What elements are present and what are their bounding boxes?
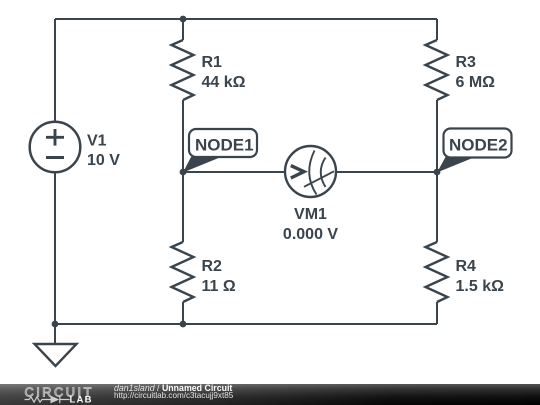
footer url line (114, 391, 233, 400)
junction bottom rail / ground (52, 321, 59, 328)
svg-text:V1: V1 (87, 132, 107, 149)
wire bottom rail (55, 323, 437, 325)
wire node A to voltmeter left terminal (183, 171, 285, 173)
svg-text:R3: R3 (456, 54, 477, 71)
wire left rail lower (54, 172, 56, 324)
svg-text:6 MΩ: 6 MΩ (456, 74, 496, 91)
node NODE2 flag tail (437, 157, 475, 173)
svg-text:R1: R1 (202, 54, 223, 71)
node NODE1 callout box (189, 129, 257, 157)
svg-text:NODE1: NODE1 (195, 136, 254, 155)
wire ground stub (54, 324, 56, 344)
svg-text:LAB: LAB (70, 395, 93, 405)
node NODE1 flag tail (183, 157, 221, 173)
wire R2 bottom lead (182, 302, 184, 324)
CircuitLab logo (0, 384, 110, 405)
label R4 name and value (456, 258, 505, 295)
resistor R2 (172, 242, 194, 302)
svg-text:0.000 V: 0.000 V (283, 226, 338, 243)
voltmeter VM1 (285, 146, 336, 197)
junction top rail / R1 (180, 16, 187, 23)
svg-text:R2: R2 (202, 258, 223, 275)
label R2 name and value (202, 258, 236, 295)
svg-text:11 Ω: 11 Ω (202, 278, 236, 295)
wire voltmeter right terminal to node B (336, 171, 437, 173)
resistor R4 (426, 242, 448, 302)
voltage source V1 (30, 122, 81, 173)
label VM1 name and reading (283, 206, 338, 243)
wire R3 bottom lead to node B (436, 100, 438, 172)
svg-text:R4: R4 (456, 258, 477, 275)
footer credit line (114, 383, 232, 393)
footer bar (0, 384, 540, 405)
wire R4 bottom lead (436, 302, 438, 324)
svg-text:NODE2: NODE2 (449, 136, 508, 155)
resistor R3 (426, 40, 448, 100)
node NODE2 junction dot (434, 169, 441, 176)
wire top rail (55, 18, 437, 20)
svg-text:44 kΩ: 44 kΩ (202, 74, 246, 91)
junction bottom rail / R2 (180, 321, 187, 328)
svg-text:1.5 kΩ: 1.5 kΩ (456, 278, 505, 295)
node NODE2 callout box (444, 129, 512, 158)
wire R1 bottom lead to node A (182, 100, 184, 172)
label V1 name and value (87, 132, 120, 169)
resistor R1 (172, 40, 194, 100)
svg-text:10 V: 10 V (87, 152, 120, 169)
node NODE1 junction dot (180, 169, 187, 176)
wire R1 top lead (182, 19, 184, 40)
label R3 name and value (456, 54, 496, 91)
wire node A to R2 top (182, 172, 184, 242)
svg-text:VM1: VM1 (294, 206, 327, 223)
label R1 name and value (202, 54, 246, 91)
ground (35, 344, 77, 366)
wire R3 top lead (436, 19, 438, 40)
wire node B to R4 top (436, 172, 438, 242)
wire left rail upper (54, 19, 56, 122)
